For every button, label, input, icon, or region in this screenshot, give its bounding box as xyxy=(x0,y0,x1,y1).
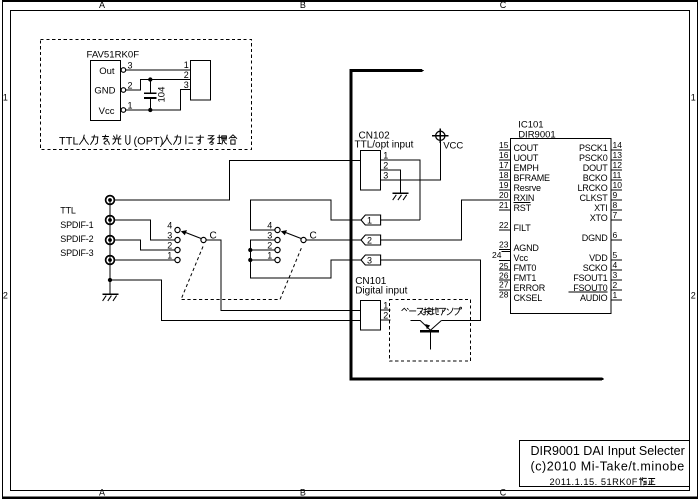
svg-text:COUT: COUT xyxy=(514,143,539,153)
svg-text:14: 14 xyxy=(613,140,623,150)
connector CN102 body xyxy=(361,151,381,191)
svg-text:B: B xyxy=(300,487,306,497)
svg-text:1: 1 xyxy=(3,93,8,103)
svg-text:ERROR: ERROR xyxy=(514,283,546,293)
net tag 3 xyxy=(361,255,381,265)
svg-text:SPDIF-2: SPDIF-2 xyxy=(60,234,93,244)
svg-text:FAV51RK0F: FAV51RK0F xyxy=(87,50,140,61)
svg-text:A: A xyxy=(99,0,105,10)
svg-text:16: 16 xyxy=(499,150,509,160)
svg-text:1: 1 xyxy=(383,300,388,310)
VCC power symbol xyxy=(436,131,445,140)
svg-text:4: 4 xyxy=(267,220,272,230)
svg-text:21: 21 xyxy=(499,200,509,210)
svg-text:4: 4 xyxy=(167,220,172,230)
IC101 pin 6 DGND xyxy=(611,239,622,241)
svg-text:PSCK1: PSCK1 xyxy=(579,143,608,153)
svg-text:11: 11 xyxy=(613,170,622,180)
ground symbol (CN102) xyxy=(392,192,408,194)
svg-text:XTI: XTI xyxy=(594,203,607,213)
svg-text:2: 2 xyxy=(3,291,8,301)
wire S1b contact2 tie xyxy=(250,249,275,251)
svg-text:1: 1 xyxy=(613,290,618,300)
wire SPDIF-3 to S1 contact1 xyxy=(115,259,176,261)
svg-text:CKSEL: CKSEL xyxy=(514,293,543,303)
wire S1b common to tag2 xyxy=(306,239,361,241)
svg-text:(OPT): (OPT) xyxy=(134,135,164,147)
svg-text:2: 2 xyxy=(613,280,618,290)
svg-text:2: 2 xyxy=(383,310,388,320)
switch S1a wiper arrow xyxy=(185,232,201,238)
IC101 pin 18 BFRAME xyxy=(499,179,510,181)
wire S1b contact1 tie xyxy=(250,259,275,261)
svg-text:3: 3 xyxy=(267,230,272,240)
ground symbol (jacks) xyxy=(109,280,111,294)
IC101 pin 4 SCKO xyxy=(611,269,622,271)
svg-text:AUDIO: AUDIO xyxy=(580,293,608,303)
IC101 pin 28 CKSEL xyxy=(499,289,510,291)
svg-text:TTL: TTL xyxy=(60,206,76,216)
svg-text:VDD: VDD xyxy=(589,253,608,263)
svg-text:13: 13 xyxy=(613,150,623,160)
IC101 pin 15 COUT xyxy=(499,149,510,151)
jack J3 SPDIF-2 xyxy=(106,236,115,245)
IC101 pin 2 FSOUT0 xyxy=(611,289,622,291)
svg-text:Digital input: Digital input xyxy=(355,286,407,297)
svg-text:15: 15 xyxy=(499,140,509,150)
junction Vcc/cap bottom xyxy=(148,108,152,112)
svg-text:2: 2 xyxy=(691,291,696,301)
svg-text:Resrve: Resrve xyxy=(514,183,542,193)
title block box xyxy=(520,441,690,487)
svg-text:25: 25 xyxy=(499,261,509,271)
svg-text:5: 5 xyxy=(613,250,618,260)
svg-text:FSOUT1: FSOUT1 xyxy=(573,273,607,283)
svg-text:DOUT: DOUT xyxy=(583,163,608,173)
wire CN102 pin2 to ground xyxy=(381,170,401,193)
IC101 pin 16 UOUT xyxy=(499,159,510,161)
IC101 pin 1 AUDIO xyxy=(611,299,622,301)
dashed box base-grounded amp xyxy=(390,300,471,362)
svg-text:6: 6 xyxy=(613,230,618,240)
svg-text:UOUT: UOUT xyxy=(514,153,539,163)
opto pin circle 2 (GND) xyxy=(121,88,126,93)
svg-text:2: 2 xyxy=(267,240,272,250)
overline RST xyxy=(514,201,531,203)
IC101 pin 26 FMT1 xyxy=(499,269,510,271)
IC101 pin 8 XTI xyxy=(611,209,622,211)
wire S1b contacts 3-1 to tag3 xyxy=(250,240,361,278)
IC101 pin 25 FMT0 xyxy=(499,260,510,262)
svg-text:10: 10 xyxy=(613,180,623,190)
IC101 pin 24 Vcc xyxy=(502,251,511,253)
svg-text:(c)2010 Mi-Take/t.minobe: (c)2010 Mi-Take/t.minobe xyxy=(531,460,685,474)
svg-text:17: 17 xyxy=(499,160,509,170)
wire opto GND to conn pin2 xyxy=(126,80,191,91)
svg-text:1: 1 xyxy=(167,250,172,260)
wire S1b contact4 to tag1 xyxy=(250,200,361,230)
svg-text:2: 2 xyxy=(383,160,388,170)
svg-text:FMT0: FMT0 xyxy=(514,263,537,273)
svg-text:DGND: DGND xyxy=(582,233,608,243)
IC101 pin 3 FSOUT1 xyxy=(611,279,622,281)
svg-text:2: 2 xyxy=(167,240,172,250)
underline FSOUT0 xyxy=(569,291,608,293)
wire SPDIF-2 to S1 contact2 xyxy=(115,240,176,250)
IC101 pin 27 ERROR xyxy=(499,279,510,281)
svg-text:2: 2 xyxy=(128,80,133,90)
wire tag3 to amp collector xyxy=(381,260,481,321)
junction ground bus xyxy=(108,278,112,282)
svg-text:28: 28 xyxy=(499,290,509,300)
svg-text:Vcc: Vcc xyxy=(514,253,529,263)
thick board outline top arm xyxy=(349,69,421,72)
svg-text:3: 3 xyxy=(613,270,618,280)
svg-text:12: 12 xyxy=(613,160,623,170)
Q1 collector lead xyxy=(431,321,442,331)
svg-text:4: 4 xyxy=(613,260,618,270)
junction GND/cap top xyxy=(148,77,152,81)
IC101 pin 7 XTO xyxy=(611,219,622,221)
IC101 pin 23 AGND xyxy=(499,248,510,250)
junction S1b c1 xyxy=(248,258,252,262)
svg-text:PSCK0: PSCK0 xyxy=(579,153,608,163)
svg-text:RST: RST xyxy=(514,203,532,213)
svg-text:20: 20 xyxy=(499,190,509,200)
svg-text:9: 9 xyxy=(613,190,618,200)
IC U101 DIR9001 body xyxy=(511,139,612,314)
svg-text:3: 3 xyxy=(184,80,189,90)
wire SPDIF-1 to S1 contact3 xyxy=(115,220,176,240)
svg-text:RXIN: RXIN xyxy=(514,193,535,203)
connector J-opt body xyxy=(191,61,211,101)
IC101 pin 9 CLKST xyxy=(611,199,622,201)
svg-text:SPDIF-1: SPDIF-1 xyxy=(60,220,93,230)
switch S1b wiper arrow xyxy=(285,232,301,238)
svg-text:22: 22 xyxy=(499,220,509,230)
svg-text:1: 1 xyxy=(691,93,696,103)
net tag 2 xyxy=(361,235,381,245)
svg-text:B: B xyxy=(300,0,306,10)
wire TTL jack to CN102 xyxy=(115,161,361,201)
svg-text:GND: GND xyxy=(94,85,115,96)
wire CN102 pin1 to tag1 xyxy=(381,160,421,220)
svg-text:FMT1: FMT1 xyxy=(514,273,537,283)
jack J1 TTL xyxy=(106,196,115,205)
svg-text:1: 1 xyxy=(267,250,272,260)
svg-text:C: C xyxy=(500,487,507,497)
svg-text:2: 2 xyxy=(367,235,372,245)
IC101 pin 21 RST xyxy=(499,209,510,211)
svg-text:23: 23 xyxy=(499,239,509,249)
wire ground to CN101 pin2 xyxy=(110,280,360,321)
svg-text:TTL/opt input: TTL/opt input xyxy=(355,139,414,150)
wire jack shield bus xyxy=(109,200,111,280)
jack J4 SPDIF-3 xyxy=(106,256,115,265)
wire tag1 right xyxy=(381,219,421,221)
optical receiver U-opt body xyxy=(91,61,121,121)
svg-text:3: 3 xyxy=(128,60,133,70)
IC101 pin 5 VDD xyxy=(611,259,622,261)
svg-text:1: 1 xyxy=(383,150,388,160)
wire opto Vcc to conn pin3 xyxy=(126,90,191,111)
thick board outline bottom arm xyxy=(349,377,602,380)
border outer xyxy=(2,0,698,2)
capacitor C 104 xyxy=(149,80,151,93)
junction S1b c2 xyxy=(248,248,252,252)
svg-text:TTL: TTL xyxy=(59,135,79,147)
wire tag2 to DIR9001 RXIN xyxy=(381,200,510,240)
svg-text:18: 18 xyxy=(499,170,509,180)
svg-text:AGND: AGND xyxy=(514,243,540,253)
IC101 pin 13 PSCK0 xyxy=(611,159,622,161)
net tag 1 xyxy=(361,215,381,225)
svg-text:SPDIF-3: SPDIF-3 xyxy=(60,248,93,258)
IC101 pin 14 PSCK1 xyxy=(611,149,622,151)
IC101 pin 11 BCKO xyxy=(611,179,622,181)
svg-text:Out: Out xyxy=(99,66,115,77)
Q1 emitter lead xyxy=(411,321,431,331)
wire opto Out to conn pin1 xyxy=(126,69,191,71)
svg-text:3: 3 xyxy=(383,170,388,180)
connector CN101 body xyxy=(361,301,381,331)
IC101 pin 12 DOUT xyxy=(611,169,622,171)
optical option dashed box xyxy=(41,40,252,150)
Q1 base lead down xyxy=(430,332,432,349)
label base-grounded amp (katakana) xyxy=(402,308,409,311)
svg-text:FILT: FILT xyxy=(514,223,532,233)
svg-text:A: A xyxy=(99,487,105,497)
svg-text:VCC: VCC xyxy=(443,140,463,151)
svg-text:7: 7 xyxy=(613,210,618,220)
wire CN102 pin3 to VCC xyxy=(381,141,441,181)
svg-text:24: 24 xyxy=(492,250,502,260)
IC101 pin 10 LRCKO xyxy=(611,189,622,191)
svg-text:8: 8 xyxy=(613,200,618,210)
svg-text:CLKST: CLKST xyxy=(579,193,608,203)
dashed gang linkage S1a-S1b xyxy=(181,247,302,300)
opto pin circle 3 (Out) xyxy=(121,68,126,73)
CN101 pin1 stub xyxy=(381,309,391,311)
svg-text:3: 3 xyxy=(367,255,372,265)
IC101 pin 19 Resrve xyxy=(499,189,510,191)
CN101 pin2 stub xyxy=(381,319,391,321)
svg-text:104: 104 xyxy=(157,87,168,103)
opto pin circle 1 (Vcc) xyxy=(121,108,126,113)
svg-text:BCKO: BCKO xyxy=(583,173,608,183)
svg-text:3: 3 xyxy=(167,230,172,240)
IC101 pin 17 EMPH xyxy=(499,169,510,171)
svg-text:19: 19 xyxy=(499,180,509,190)
thick board outline vertical xyxy=(349,69,352,380)
svg-text:Vcc: Vcc xyxy=(99,106,115,117)
svg-text:1: 1 xyxy=(367,215,372,225)
wire S1a common to CN101 pin1 xyxy=(206,240,360,311)
svg-text:1: 1 xyxy=(184,60,189,70)
svg-text:EMPH: EMPH xyxy=(514,163,539,173)
jack J2 SPDIF-1 xyxy=(106,216,115,225)
svg-text:SCKO: SCKO xyxy=(583,263,608,273)
svg-text:1: 1 xyxy=(128,100,133,110)
svg-text:27: 27 xyxy=(499,280,509,290)
svg-text:C: C xyxy=(500,0,507,10)
svg-text:2011.1.15. 51RK0F: 2011.1.15. 51RK0F xyxy=(550,477,638,487)
svg-text:2: 2 xyxy=(184,70,189,80)
svg-text:LRCKO: LRCKO xyxy=(577,183,607,193)
svg-text:DIR9001 DAI Input Selecter: DIR9001 DAI Input Selecter xyxy=(531,444,685,458)
Q1 base bar xyxy=(420,330,439,332)
IC101 pin 22 FILT xyxy=(499,229,510,231)
svg-text:XTO: XTO xyxy=(590,213,608,223)
svg-text:BFRAME: BFRAME xyxy=(514,173,551,183)
